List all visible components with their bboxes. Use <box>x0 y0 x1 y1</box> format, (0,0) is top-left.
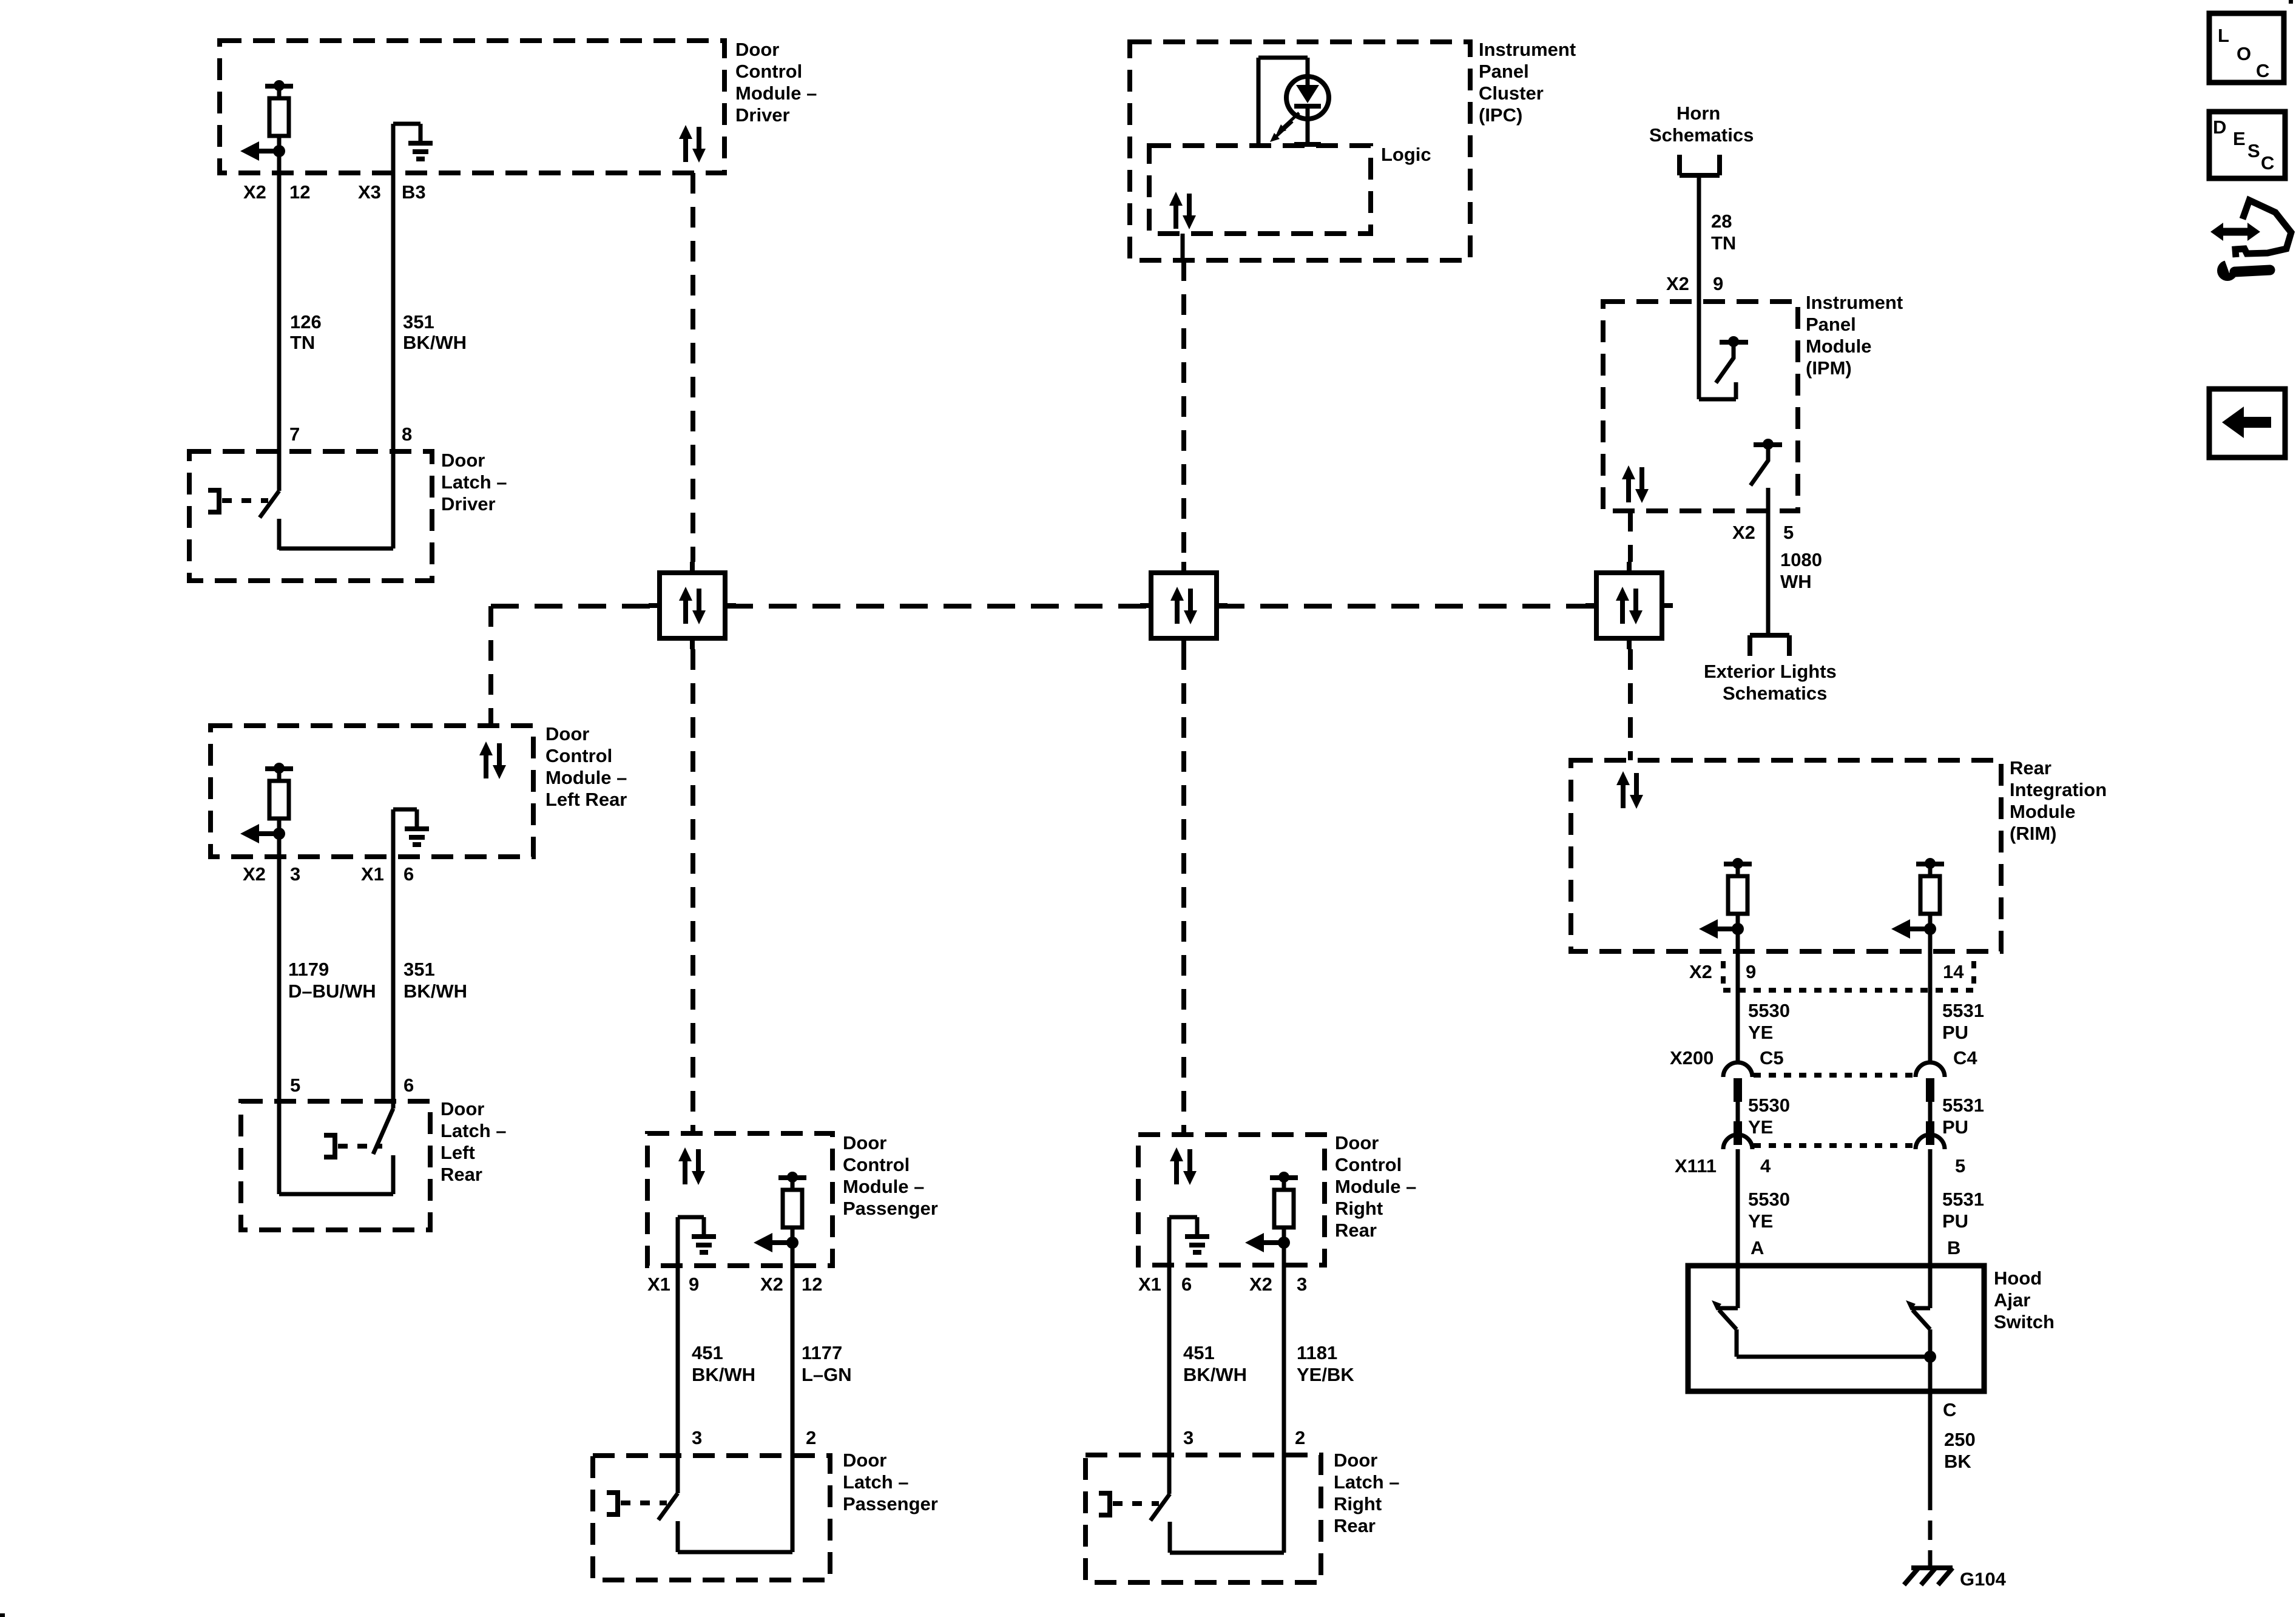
module box: Door Latch - Left Rear <box>241 1101 430 1230</box>
svg-text:1181: 1181 <box>1297 1342 1337 1363</box>
svg-text:Rear: Rear <box>2010 757 2051 778</box>
wire 28 TN <box>1697 175 1701 302</box>
svg-text:Module: Module <box>2010 801 2076 822</box>
svg-text:Rear: Rear <box>1335 1220 1377 1241</box>
switch (driver door latch) <box>208 488 279 550</box>
svg-text:Right: Right <box>1334 1493 1382 1514</box>
svg-text:Door: Door <box>843 1450 886 1471</box>
svg-text:X111: X111 <box>1675 1155 1717 1176</box>
svg-text:G104: G104 <box>1960 1568 2007 1590</box>
wire (latch loop left rear) <box>279 1192 393 1197</box>
svg-text:Passenger: Passenger <box>843 1198 938 1219</box>
svg-text:X1: X1 <box>1138 1274 1161 1295</box>
wire (hood switch common) <box>1737 1355 1930 1359</box>
svg-text:X3: X3 <box>358 181 381 203</box>
svg-text:4: 4 <box>1760 1155 1771 1176</box>
off-page connector (exterior lights) <box>1750 633 1789 638</box>
svg-text:351: 351 <box>403 959 435 980</box>
serial data symbol (right rear DCM) <box>1170 1147 1197 1185</box>
wire 1080 WH <box>1766 488 1771 635</box>
svg-text:D: D <box>2213 116 2226 138</box>
wire 250 BK <box>1928 1357 1933 1491</box>
svg-text:8: 8 <box>402 424 412 445</box>
svg-text:3: 3 <box>290 863 300 885</box>
switch B (hood ajar) <box>1911 1306 1930 1311</box>
wire 1177 L-GN <box>791 1243 795 1552</box>
wire 5531 PU (X200 to X111) <box>1928 1102 1933 1122</box>
svg-text:5: 5 <box>1783 522 1794 543</box>
svg-text:451: 451 <box>692 1342 723 1363</box>
bus connector box 2 <box>1140 562 1227 649</box>
module box: Hood Ajar Switch <box>1688 1266 1984 1391</box>
svg-text:PU: PU <box>1942 1210 1968 1232</box>
svg-text:YE: YE <box>1748 1116 1773 1138</box>
resistor (right rear DCM) <box>1245 1172 1298 1252</box>
ground (passenger DCM) <box>676 1217 680 1266</box>
wire (IPM to bus) <box>1628 511 1633 562</box>
svg-text:Cluster: Cluster <box>1479 83 1544 104</box>
wire (bus to DCM right rear) <box>1181 649 1186 1135</box>
switch 2 (IPM exterior lights switch) <box>1754 442 1782 447</box>
svg-text:E: E <box>2233 128 2246 149</box>
wire (DCM driver to bus) <box>690 173 695 562</box>
svg-text:Logic: Logic <box>1381 144 1431 165</box>
wire (bus drop to DCM left rear) <box>488 606 493 726</box>
resistor (passenger DCM) <box>754 1172 806 1252</box>
svg-text:BK: BK <box>1944 1451 1971 1472</box>
serial data symbol (driver DCM) <box>679 125 706 163</box>
module box: Door Control Module - Driver <box>220 41 724 173</box>
svg-text:5531: 5531 <box>1942 1095 1984 1116</box>
svg-text:Door: Door <box>735 39 779 60</box>
svg-text:Control: Control <box>735 61 802 82</box>
svg-text:PU: PU <box>1942 1022 1968 1043</box>
serial data symbol (RIM) <box>1616 771 1643 809</box>
svg-text:YE/BK: YE/BK <box>1297 1364 1354 1385</box>
svg-text:Latch –: Latch – <box>1334 1471 1400 1493</box>
wire 1179 D-BU/WH <box>277 834 282 1194</box>
svg-text:C5: C5 <box>1760 1047 1784 1068</box>
svg-text:X2: X2 <box>243 181 266 203</box>
wire (latch loop to pin 8) <box>279 547 393 551</box>
svg-text:A: A <box>1751 1237 1764 1258</box>
module box: Rear Integration Module (RIM) <box>1571 760 2001 951</box>
svg-text:Control: Control <box>843 1154 910 1175</box>
svg-text:X2: X2 <box>1689 961 1712 982</box>
svg-text:Door: Door <box>545 723 589 744</box>
wire stub (logic to IPC edge) <box>1181 234 1185 260</box>
svg-text:Latch –: Latch – <box>441 471 507 493</box>
svg-text:9: 9 <box>1746 961 1756 982</box>
module box: Door Control Module - Passenger <box>647 1133 832 1266</box>
svg-text:X2: X2 <box>243 863 266 885</box>
in-line connector X200 C5 <box>1723 1062 1752 1102</box>
svg-text:Hood: Hood <box>1994 1268 2042 1289</box>
svg-text:Rear: Rear <box>441 1164 482 1185</box>
svg-text:PU: PU <box>1942 1116 1968 1138</box>
serial data symbol (IPC logic) <box>1169 192 1196 229</box>
svg-text:Schematics: Schematics <box>1723 683 1827 704</box>
resistor (RIM hood input 1) <box>1699 858 1752 939</box>
svg-text:Latch –: Latch – <box>441 1120 507 1141</box>
svg-text:9: 9 <box>1713 273 1723 294</box>
svg-text:X2: X2 <box>1249 1274 1272 1295</box>
svg-text:5530: 5530 <box>1748 1000 1790 1021</box>
svg-text:12: 12 <box>289 181 310 203</box>
module box: Door Latch - Driver <box>189 451 432 581</box>
svg-text:(RIM): (RIM) <box>2010 823 2056 844</box>
svg-text:Door: Door <box>843 1132 886 1153</box>
svg-text:TN: TN <box>290 332 315 353</box>
switch (passenger door latch) <box>607 1490 678 1552</box>
wire 351 BK/WH (left rear) <box>391 857 396 1109</box>
connector X111 dotted line <box>1754 1143 1914 1148</box>
svg-text:1179: 1179 <box>288 959 329 980</box>
module box: Door Control Module - Left Rear <box>211 726 533 857</box>
svg-text:Exterior Lights: Exterior Lights <box>1704 661 1837 682</box>
resistor (RIM hood input 2) <box>1891 858 1944 939</box>
svg-text:Latch –: Latch – <box>843 1471 909 1493</box>
svg-text:Panel: Panel <box>1806 314 1856 335</box>
svg-text:Driver: Driver <box>441 493 496 515</box>
serial data symbol (left rear DCM) <box>479 741 506 779</box>
svg-text:X1: X1 <box>647 1274 670 1295</box>
svg-text:WH: WH <box>1780 571 1812 592</box>
svg-text:C: C <box>2261 152 2274 174</box>
svg-text:28: 28 <box>1711 211 1732 232</box>
svg-text:BK/WH: BK/WH <box>403 981 467 1002</box>
wire (lamp feed loop) <box>1258 56 1308 60</box>
svg-text:Right: Right <box>1335 1198 1383 1219</box>
svg-text:C: C <box>2256 60 2269 81</box>
wire (IPC to bus) <box>1181 260 1186 562</box>
svg-text:5531: 5531 <box>1942 1000 1984 1021</box>
svg-text:Module –: Module – <box>735 83 817 104</box>
svg-text:BK/WH: BK/WH <box>1183 1364 1247 1385</box>
wire 451 BK/WH (passenger) <box>676 1217 680 1493</box>
page corner mark <box>0 1613 5 1617</box>
svg-text:X200: X200 <box>1670 1047 1714 1068</box>
svg-text:C: C <box>1943 1399 1956 1420</box>
icon: LOC box <box>2209 13 2284 83</box>
switch A (hood ajar) <box>1717 1306 1738 1311</box>
connector X200 dotted line <box>1754 1073 1914 1078</box>
svg-text:X2: X2 <box>1732 522 1755 543</box>
wire 1181 YE/BK <box>1282 1243 1286 1553</box>
switch 1 (IPM horn switch) <box>1697 302 1701 399</box>
ground G104 <box>1911 1565 1953 1570</box>
svg-text:250: 250 <box>1944 1429 1976 1450</box>
ground (right rear DCM) <box>1167 1217 1172 1265</box>
svg-text:351: 351 <box>403 311 434 333</box>
svg-text:BK/WH: BK/WH <box>692 1364 755 1385</box>
svg-text:Instrument: Instrument <box>1806 292 1903 313</box>
svg-text:3: 3 <box>692 1427 702 1448</box>
module box: Logic (inside IPC) <box>1149 146 1371 234</box>
wire 5530 YE (X200 to X111) <box>1736 1102 1740 1122</box>
svg-text:BK/WH: BK/WH <box>403 332 467 353</box>
icon: harness routing (double arrow with wrench) <box>2221 228 2250 236</box>
junction (hood switch common) <box>1924 1351 1936 1363</box>
module box: Door Control Module - Right Rear <box>1138 1135 1325 1265</box>
wire (latch loop passenger) <box>678 1550 792 1555</box>
switch (left rear door latch) <box>373 1109 393 1154</box>
svg-text:Left Rear: Left Rear <box>545 789 627 810</box>
serial data symbol (passenger DCM) <box>678 1147 705 1185</box>
bus connector box 1 <box>649 562 736 649</box>
svg-text:Left: Left <box>441 1142 475 1163</box>
svg-text:9: 9 <box>689 1274 699 1295</box>
wire (bus to RIM) <box>1628 649 1633 760</box>
module box: Instrument Panel Cluster (IPC) <box>1130 42 1470 260</box>
svg-text:Control: Control <box>1335 1154 1402 1175</box>
svg-text:6: 6 <box>403 863 414 885</box>
wire 5530 YE (RIM to X200) <box>1736 929 1740 1063</box>
svg-text:B: B <box>1947 1237 1960 1258</box>
indicator lamp (IPC) <box>1286 76 1329 119</box>
wire 351 BK/WH (pin B3 to latch pin 8) <box>391 173 396 549</box>
ground (left rear DCM) <box>391 809 396 857</box>
in-line connector X111 pin 4 <box>1723 1121 1752 1149</box>
svg-text:Rear: Rear <box>1334 1515 1376 1536</box>
svg-text:Schematics: Schematics <box>1649 124 1754 146</box>
svg-text:5: 5 <box>1955 1155 1965 1176</box>
svg-text:6: 6 <box>1181 1274 1192 1295</box>
RIM pin connector box (dotted) <box>1721 961 1726 990</box>
svg-text:Door: Door <box>1334 1450 1377 1471</box>
svg-text:YE: YE <box>1748 1022 1773 1043</box>
svg-text:Driver: Driver <box>735 104 790 126</box>
svg-text:5530: 5530 <box>1748 1189 1790 1210</box>
wire (bus to DCM passenger) <box>690 649 695 1133</box>
module box: Door Latch - Right Rear <box>1086 1455 1321 1582</box>
switch (right rear door latch) <box>1099 1491 1170 1553</box>
svg-text:Instrument: Instrument <box>1479 39 1576 60</box>
svg-text:6: 6 <box>403 1075 414 1096</box>
svg-text:2: 2 <box>806 1427 816 1448</box>
svg-text:O: O <box>2237 43 2251 64</box>
off-page connector (horn) <box>1677 155 1682 175</box>
svg-text:X2: X2 <box>760 1274 783 1295</box>
svg-text:2: 2 <box>1295 1427 1305 1448</box>
svg-text:X2: X2 <box>1666 273 1689 294</box>
svg-text:5530: 5530 <box>1748 1095 1790 1116</box>
svg-text:Switch: Switch <box>1994 1311 2055 1332</box>
serial data bus (horizontal dashed) <box>491 604 660 609</box>
page corner mark top right <box>2289 0 2293 4</box>
wire 451 BK/WH (right rear) <box>1167 1217 1172 1494</box>
svg-text:TN: TN <box>1711 232 1736 254</box>
svg-text:C4: C4 <box>1953 1047 1977 1068</box>
svg-text:D–BU/WH: D–BU/WH <box>288 981 376 1002</box>
svg-text:12: 12 <box>802 1274 822 1295</box>
in-line connector X111 pin 5 <box>1916 1121 1945 1149</box>
icon: DESC box <box>2209 112 2285 178</box>
svg-text:5531: 5531 <box>1942 1189 1984 1210</box>
svg-text:Passenger: Passenger <box>843 1493 938 1514</box>
svg-text:Door: Door <box>1335 1132 1379 1153</box>
svg-text:Module: Module <box>1806 336 1872 357</box>
svg-text:3: 3 <box>1183 1427 1194 1448</box>
wire 5530 YE (X111 to hood switch A) <box>1736 1149 1740 1308</box>
svg-text:1177: 1177 <box>802 1342 842 1363</box>
svg-text:YE: YE <box>1748 1210 1773 1232</box>
svg-text:3: 3 <box>1297 1274 1307 1295</box>
svg-text:Ajar: Ajar <box>1994 1289 2030 1311</box>
module box: Instrument Panel Module (IPM) <box>1603 302 1798 511</box>
svg-text:L–GN: L–GN <box>802 1364 852 1385</box>
svg-text:Module –: Module – <box>545 767 627 788</box>
resistor (driver DCM pull-up) <box>240 80 293 161</box>
svg-text:Horn: Horn <box>1676 103 1720 124</box>
svg-text:Module –: Module – <box>1335 1176 1416 1197</box>
svg-text:451: 451 <box>1183 1342 1215 1363</box>
svg-text:(IPM): (IPM) <box>1806 357 1852 379</box>
svg-text:Module –: Module – <box>843 1176 924 1197</box>
module box: Door Latch - Passenger <box>593 1456 830 1580</box>
svg-text:B3: B3 <box>402 181 426 203</box>
svg-text:126: 126 <box>290 311 322 333</box>
resistor (left rear DCM) <box>240 763 293 843</box>
in-line connector X200 C4 <box>1916 1062 1945 1102</box>
bus connector box 3 <box>1585 562 1673 649</box>
svg-text:5: 5 <box>290 1075 300 1096</box>
serial data symbol (IPM) <box>1622 465 1649 503</box>
svg-text:S: S <box>2247 140 2260 161</box>
wire 5531 PU (X111 to hood switch B) <box>1928 1149 1933 1308</box>
svg-text:7: 7 <box>289 424 300 445</box>
ground (driver DCM internal) <box>391 124 396 173</box>
svg-text:X1: X1 <box>361 863 384 885</box>
svg-text:Door: Door <box>441 450 485 471</box>
svg-text:Panel: Panel <box>1479 61 1529 82</box>
wire (latch loop right rear) <box>1170 1551 1284 1555</box>
light emission arrows <box>1283 113 1299 127</box>
svg-text:L: L <box>2218 25 2229 46</box>
svg-text:Door: Door <box>441 1098 484 1119</box>
svg-text:(IPC): (IPC) <box>1479 104 1522 126</box>
svg-text:1080: 1080 <box>1780 549 1822 570</box>
wire 126 TN (pin 12 to latch pin 7) <box>277 151 282 491</box>
svg-text:14: 14 <box>1943 961 1964 982</box>
wire 5531 PU (RIM to X200) <box>1928 929 1933 1063</box>
svg-text:Integration: Integration <box>2010 779 2107 800</box>
svg-text:Control: Control <box>545 745 612 766</box>
icon: back arrow box <box>2209 389 2285 457</box>
